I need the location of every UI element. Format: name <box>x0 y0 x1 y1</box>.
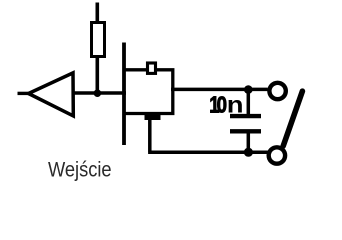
svg-text:Wejście: Wejście <box>48 158 112 181</box>
junction node A <box>94 89 102 97</box>
svg-text:n: n <box>227 92 244 118</box>
resistor R1 <box>92 23 105 57</box>
svg-text:0: 0 <box>217 93 227 118</box>
junction node C <box>244 148 253 157</box>
wire triangle to gate bar <box>70 91 126 95</box>
drain terminal square <box>148 63 156 73</box>
wire input stub <box>18 92 30 95</box>
capacitor C1 bottom plate <box>230 129 261 133</box>
transistor body box <box>124 70 173 114</box>
switch contact terminal top <box>269 83 285 99</box>
wire source down and along bottom <box>148 119 268 152</box>
transistor channel bar <box>122 43 126 146</box>
input triangle symbol <box>29 73 74 116</box>
switch lever <box>283 91 302 146</box>
source terminal pad <box>145 115 161 120</box>
resistor top lead <box>96 3 100 24</box>
switch contact terminal bottom <box>269 147 285 163</box>
capacitor C1 top plate <box>230 114 261 118</box>
capacitor top stub <box>247 90 251 115</box>
value label 10n <box>209 92 243 118</box>
resistor bottom lead <box>96 56 100 93</box>
wire output right <box>171 88 268 92</box>
capacitor bottom stub <box>247 133 251 152</box>
junction node B <box>244 85 253 94</box>
